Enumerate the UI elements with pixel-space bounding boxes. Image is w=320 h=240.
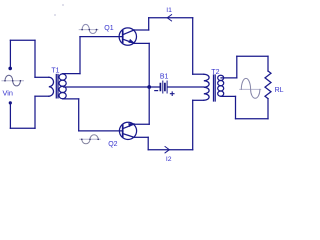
sine symbol at Q1 input (79, 29, 98, 31)
source Vin sine symbol (2, 80, 24, 82)
wire Q2 emitter lead (134, 123, 149, 125)
sine symbol at Q2 input (inverted) (80, 138, 100, 140)
svg-text:I1: I1 (166, 7, 172, 14)
transistor Q1 emitter arrow (128, 39, 134, 43)
wire battery to T2 center tap (168, 86, 204, 88)
wire top horizontal from Vin to T1 (10, 39, 35, 41)
transformer T1 primary winding (49, 77, 54, 96)
wire vertical up to T2 secondary bottom (235, 96, 237, 118)
node Vin+ terminal dot (8, 67, 12, 71)
wire RL bottom lead (267, 99, 269, 119)
wire bottom horizontal (10, 127, 35, 129)
wire T1 primary top lead (35, 76, 49, 78)
node emitter junction dot (147, 85, 151, 89)
transistor Q2 collector diagonal (123, 134, 134, 138)
wire Vin top vertical (9, 40, 11, 68)
svg-text:B1: B1 (160, 74, 169, 81)
transistor Q2 emitter diagonal (123, 124, 134, 128)
transformer T2 core (214, 75, 216, 101)
node Vin- terminal dot (9, 101, 12, 104)
wire top rail (149, 17, 193, 19)
wire T1 secondary top lead (63, 73, 80, 75)
wire emitter vertical up from Q2 (148, 87, 150, 124)
wire Vin bottom vertical (9, 103, 11, 128)
arrow I1 on top rail (167, 15, 171, 21)
transistor Q1 emitter diagonal (123, 39, 134, 43)
wire T1 primary bottom lead (35, 95, 49, 97)
grid dot 2 (54, 14, 56, 16)
wire Q2 collector lead (134, 136, 148, 138)
wire center tap line from T1 to battery (64, 86, 160, 88)
svg-text:Q2: Q2 (108, 141, 117, 148)
arrow I2 on bottom rail (165, 147, 169, 153)
wire Q2 collector vertical to bottom rail (147, 137, 149, 149)
transistor Q2 base bar (122, 125, 124, 137)
wire load loop top horizontal (237, 55, 268, 57)
battery B1 short plate 1 (159, 84, 161, 91)
wire bottom rail (148, 149, 193, 151)
wire Q2 base horizontal (79, 130, 123, 132)
wire T2 primary bottom lead (193, 99, 204, 101)
transistor Q1 (119, 28, 136, 45)
svg-text:Q1: Q1 (104, 25, 113, 32)
svg-text:T2: T2 (211, 69, 219, 76)
transistor Q2 (119, 122, 136, 139)
wire Q1 collector vertical to top rail (148, 18, 150, 30)
wire vertical down to Q2 base (78, 99, 80, 131)
battery B1 long plate 2 (166, 81, 168, 93)
wire vertical from top rail down to T2 (192, 18, 194, 74)
transistor Q2 emitter arrow (128, 123, 135, 127)
label battery plus (170, 92, 174, 96)
wire T1 secondary bottom lead (63, 98, 79, 100)
resistor RL (265, 71, 271, 99)
svg-text:I2: I2 (166, 156, 172, 163)
label battery minus (155, 90, 158, 92)
transformer T2 primary winding (204, 74, 209, 100)
battery B1 long plate 1 (162, 81, 164, 93)
wire T2 secondary top lead (221, 77, 237, 79)
wire RL top lead (267, 56, 269, 71)
wire vertical up to T1 primary bottom (34, 96, 36, 128)
transformer T1 core (56, 75, 58, 98)
wire Q1 base horizontal (80, 36, 123, 38)
wire vertical up to Q1 base (79, 37, 81, 74)
wire emitter vertical down to junction (148, 43, 150, 87)
battery B1 short plate 2 (164, 84, 166, 91)
wire Q1 collector lead (134, 29, 149, 31)
transistor Q1 base bar (122, 31, 124, 43)
sine symbol at output (240, 88, 261, 90)
wire vertical down to T1 primary top (34, 40, 36, 77)
svg-text:Vin: Vin (3, 88, 13, 97)
transformer T2 secondary winding (218, 75, 224, 80)
wire Q1 emitter lead (134, 42, 149, 44)
wire vertical up to load loop top (236, 56, 238, 78)
transformer T1 secondary winding (59, 74, 66, 80)
svg-text:RL: RL (275, 87, 284, 94)
wire T2 primary top lead (193, 73, 204, 75)
wire T2 secondary bottom lead (221, 95, 236, 97)
svg-text:T1: T1 (51, 68, 59, 75)
transistor Q1 collector diagonal (123, 30, 134, 35)
wire vertical up to T2 primary bottom (192, 100, 194, 149)
grid dot 1 (62, 4, 64, 6)
wire load loop bottom horizontal (236, 118, 269, 120)
